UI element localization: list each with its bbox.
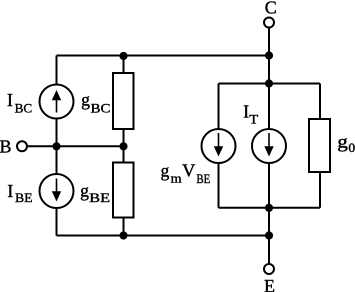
svg-text:g: g <box>80 181 89 201</box>
wire base B <box>27 145 124 147</box>
node dot base meets gBC/gBE branch <box>119 142 127 150</box>
label g_BC <box>81 90 110 116</box>
wire bottom-left rail <box>57 235 270 237</box>
wire top-left rail B-C side <box>57 55 270 57</box>
node dot base meets IBC/IBE branch <box>52 142 60 150</box>
terminal B <box>17 141 27 151</box>
current source I_BE <box>40 174 74 208</box>
wire right g0 branch <box>319 84 321 208</box>
wire gBC/gBE branch vertical <box>123 56 125 236</box>
wire left branch vertical (IBC/IBE) <box>56 56 58 236</box>
resistor g_0 <box>309 119 330 172</box>
svg-text:T: T <box>249 112 258 127</box>
svg-text:I: I <box>243 102 249 122</box>
node dot right bottom rail <box>265 204 273 212</box>
wire right left branch (gmVBE) <box>218 84 220 208</box>
svg-text:I: I <box>7 181 13 201</box>
node dot top rail meets C line <box>265 51 273 59</box>
svg-text:BC: BC <box>91 100 111 115</box>
node dot gBC top <box>119 52 127 60</box>
current source I_T <box>252 129 286 163</box>
svg-text:B: B <box>0 137 12 157</box>
svg-text:g: g <box>161 161 170 181</box>
svg-text:0: 0 <box>348 140 355 155</box>
svg-text:BE: BE <box>89 190 110 205</box>
svg-text:I: I <box>7 90 13 110</box>
svg-text:E: E <box>264 276 275 292</box>
node dot bottom rail gBE branch <box>119 231 127 239</box>
label I_BE <box>7 181 32 205</box>
svg-text:g: g <box>81 90 90 110</box>
resistor g_BC <box>113 73 134 129</box>
resistor g_BE <box>113 163 134 218</box>
svg-text:g: g <box>337 132 348 152</box>
terminal C <box>264 18 274 28</box>
svg-text:BE: BE <box>196 171 210 186</box>
svg-text:m: m <box>171 171 182 186</box>
label I_T <box>243 102 258 127</box>
label g_m V_BE <box>161 160 211 186</box>
terminal E <box>264 264 274 274</box>
wire right bottom rail <box>219 207 321 209</box>
svg-text:BE: BE <box>15 190 33 205</box>
wire main vertical C to E <box>268 28 270 264</box>
label g_BE <box>80 181 110 206</box>
svg-text:C: C <box>265 0 277 18</box>
current source I_BC <box>40 85 74 119</box>
wire right top rail <box>219 83 321 85</box>
label g_0 <box>337 132 355 156</box>
label I_BC <box>7 90 32 115</box>
controlled source g_m V_BE <box>202 129 236 163</box>
svg-text:BC: BC <box>15 100 33 115</box>
svg-text:V: V <box>182 160 196 180</box>
node dot bottom rail meets E line <box>265 231 273 239</box>
node dot right top rail <box>265 79 273 87</box>
